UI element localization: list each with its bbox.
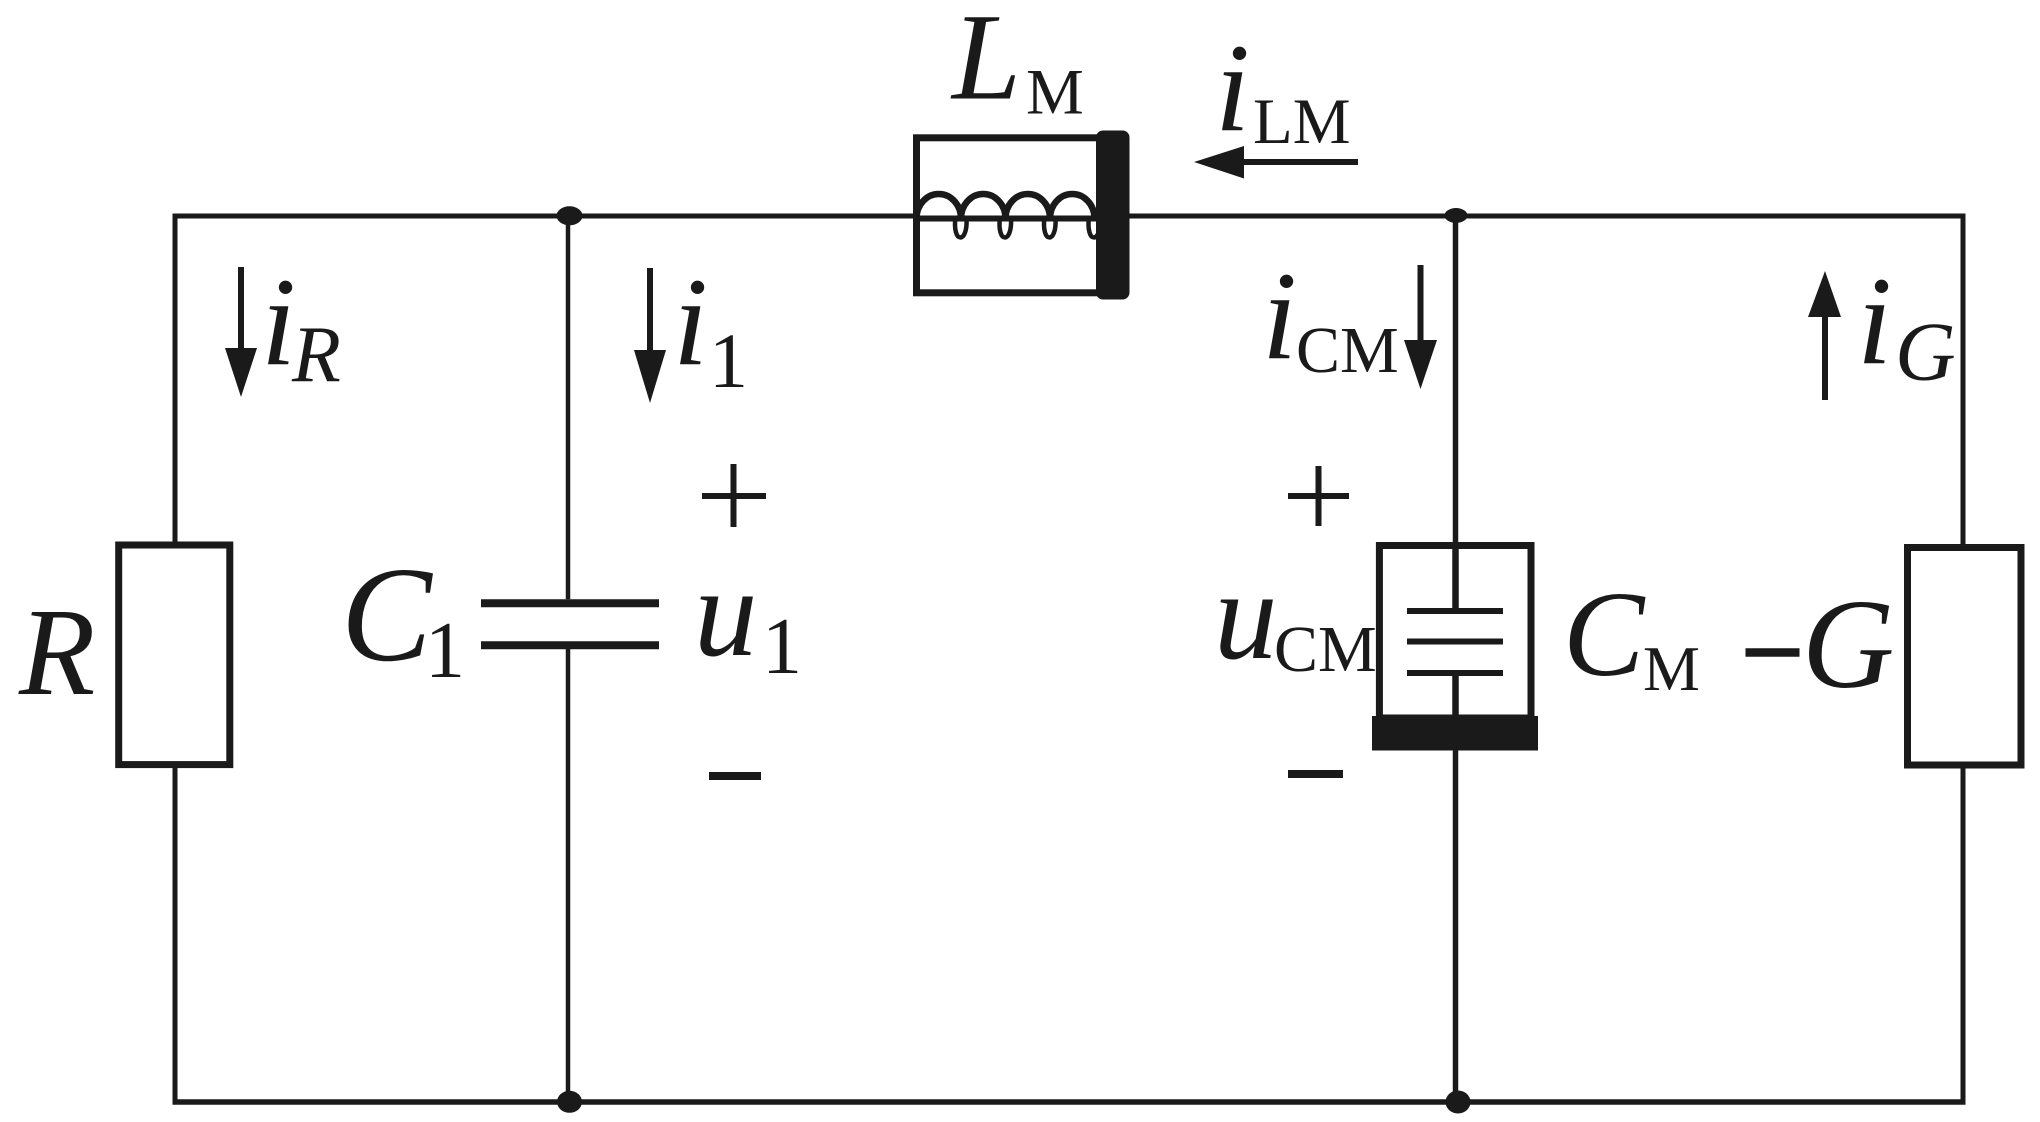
svg-text:G: G [1802, 573, 1894, 715]
svg-text:i: i [673, 253, 708, 392]
svg-text:G: G [1895, 306, 1956, 399]
svg-text:i: i [1262, 247, 1297, 386]
label i_G [1857, 252, 1956, 399]
label L_M [950, 0, 1084, 129]
label i_CM [1262, 247, 1399, 387]
top stub [1452, 545, 1459, 608]
svg-text:1: 1 [709, 317, 748, 404]
wire bottom [173, 1099, 1966, 1105]
label i_1 [673, 253, 748, 404]
wire CM branch [1453, 216, 1459, 1103]
svg-text:R: R [18, 584, 95, 722]
current arrow i_1 [634, 268, 666, 403]
node dot top CM [1445, 208, 1468, 223]
bottom electrode bar [1372, 716, 1538, 751]
svg-text:i: i [1857, 252, 1892, 391]
svg-text:CM: CM [1274, 613, 1377, 686]
core bar [1096, 131, 1130, 300]
coil base line [916, 216, 1098, 222]
capacitor C1 [481, 603, 659, 645]
svg-text:1: 1 [762, 603, 802, 691]
current arrow i_LM [1194, 146, 1358, 179]
bottom stub [1452, 676, 1459, 716]
coil hooks [955, 217, 1100, 237]
label i_LM [1215, 19, 1351, 158]
svg-text:L: L [950, 0, 1021, 126]
svg-text:M: M [1026, 57, 1084, 129]
coil arcs [917, 194, 1095, 219]
resistor -G [1908, 548, 2022, 766]
svg-text:R: R [291, 311, 341, 399]
wire right [1961, 214, 1966, 1105]
plus sign u1 [702, 464, 766, 527]
label C1 [341, 540, 465, 695]
label i_R [261, 253, 341, 399]
svg-text:C: C [1563, 567, 1646, 702]
inductor L_M [916, 131, 1130, 300]
current arrow i_CM [1404, 265, 1437, 389]
label u_CM [1214, 546, 1377, 686]
capacitor C_M [1372, 545, 1538, 751]
plates [1407, 611, 1503, 673]
svg-text:u: u [1214, 546, 1278, 686]
node dot top C1 [557, 206, 583, 225]
wire top [173, 214, 1966, 219]
svg-text:CM: CM [1296, 314, 1399, 387]
svg-text:i: i [1215, 19, 1250, 158]
svg-text:M: M [1643, 633, 1700, 704]
wire left [173, 214, 178, 1105]
label u1 [694, 543, 802, 691]
wire C1 branch [566, 216, 571, 1102]
node dot bottom C1 [557, 1091, 582, 1113]
label C_M [1563, 567, 1700, 704]
svg-text:i: i [261, 253, 296, 392]
plus sign uCM [1288, 466, 1349, 526]
label -G [1746, 573, 1895, 715]
svg-text:C: C [341, 540, 433, 690]
minus sign uCM [1288, 770, 1343, 778]
current arrow i_G [1808, 271, 1841, 400]
current arrow i_R [225, 267, 257, 397]
resistor R [119, 545, 230, 765]
node dot bottom CM [1446, 1091, 1471, 1114]
svg-text:LM: LM [1253, 86, 1351, 158]
svg-text:u: u [694, 543, 758, 683]
minus sign u1 [709, 772, 761, 780]
svg-text:1: 1 [425, 607, 465, 695]
